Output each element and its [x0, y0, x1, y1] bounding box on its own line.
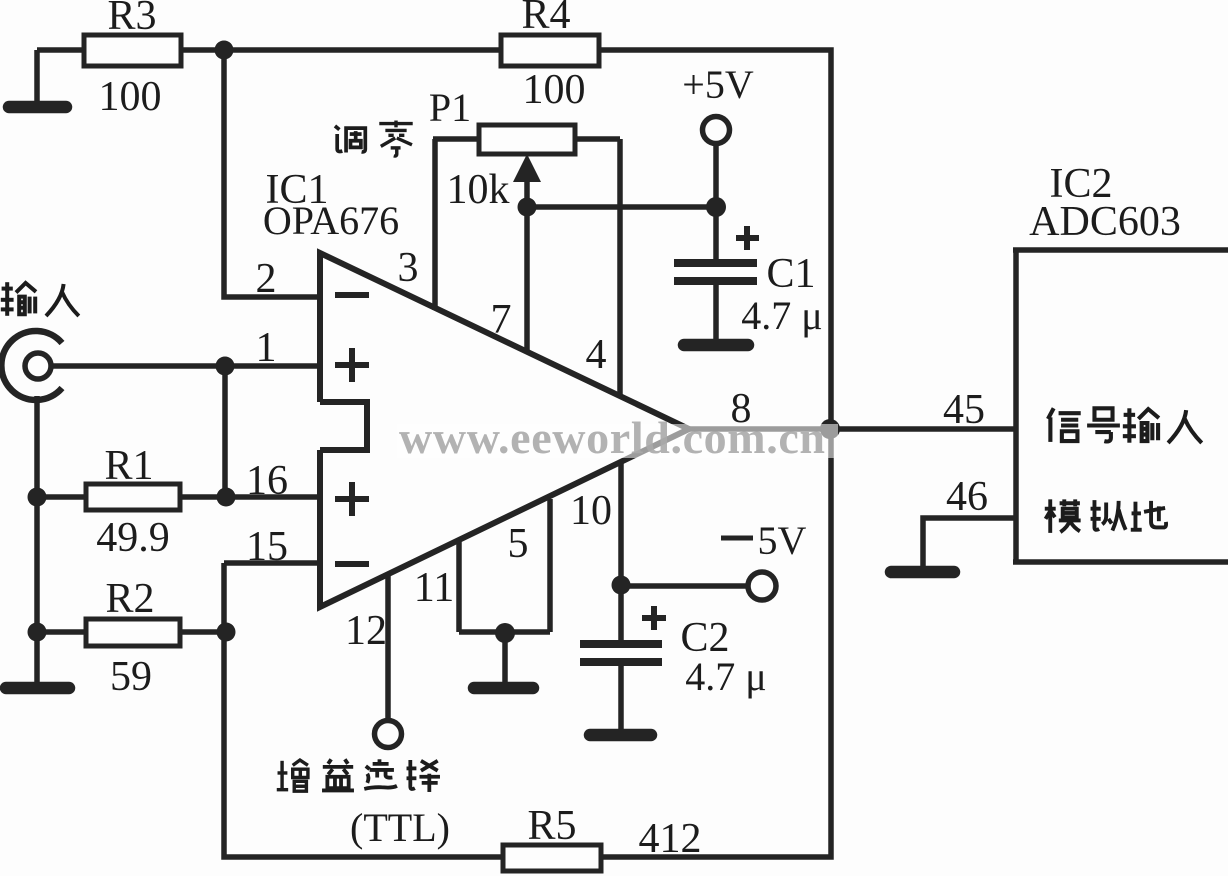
svg-text:5: 5 [508, 521, 529, 567]
svg-text:4: 4 [586, 332, 607, 378]
svg-text:100: 100 [523, 67, 586, 113]
svg-text:16: 16 [246, 458, 288, 504]
svg-text:15: 15 [246, 524, 288, 570]
svg-text:412: 412 [639, 816, 702, 862]
svg-text:12: 12 [345, 608, 387, 654]
svg-text:R3: R3 [107, 0, 156, 39]
svg-text:R5: R5 [527, 803, 576, 849]
svg-text:5V: 5V [758, 518, 807, 563]
svg-text:P1: P1 [429, 85, 471, 130]
svg-text:45: 45 [943, 387, 985, 433]
svg-text:R2: R2 [105, 576, 154, 622]
svg-text:1: 1 [256, 325, 277, 371]
svg-text:OPA676: OPA676 [263, 198, 399, 243]
svg-text:49.9: 49.9 [96, 515, 170, 561]
svg-text:4.7 μ: 4.7 μ [741, 293, 822, 338]
svg-text:11: 11 [414, 565, 454, 611]
svg-text:100: 100 [99, 74, 162, 120]
svg-text:7: 7 [491, 297, 512, 343]
svg-text:59: 59 [110, 654, 152, 700]
svg-text:www.eeworld.com.cn: www.eeworld.com.cn [399, 412, 825, 463]
svg-text:+5V: +5V [682, 62, 754, 107]
svg-text:(TTL): (TTL) [350, 805, 450, 850]
svg-text:C1: C1 [766, 251, 815, 297]
svg-text:10: 10 [570, 488, 612, 534]
svg-text:3: 3 [398, 245, 419, 291]
svg-text:10k: 10k [447, 167, 510, 213]
svg-text:4.7 μ: 4.7 μ [685, 654, 766, 699]
svg-text:46: 46 [946, 474, 988, 520]
svg-text:ADC603: ADC603 [1029, 199, 1181, 245]
svg-text:R4: R4 [521, 0, 570, 38]
svg-text:2: 2 [256, 256, 277, 302]
svg-text:R1: R1 [104, 443, 153, 489]
